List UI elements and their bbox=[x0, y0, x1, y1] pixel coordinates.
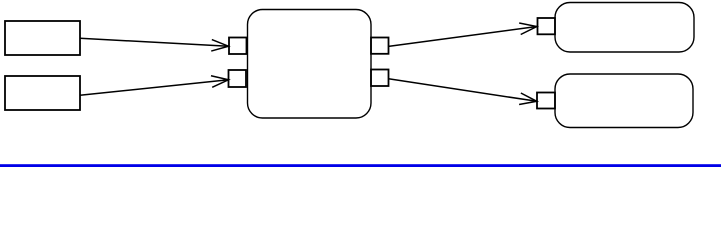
arrow wire: output port 1 to sink box 1 port bbox=[389, 27, 537, 47]
sink box 1 (top-right rounded rectangle) bbox=[555, 3, 694, 53]
arrow wire: source box 1 to input port 1 bbox=[80, 38, 229, 46]
arrowhead at input port 1 bbox=[211, 40, 228, 52]
arrowhead at sink box 1 port bbox=[519, 23, 537, 34]
central process block (rounded) bbox=[248, 10, 372, 119]
input port 2 (left edge of central block) bbox=[229, 70, 247, 87]
output port 2 (right edge of central block) bbox=[371, 70, 389, 87]
arrowhead at input port 2 bbox=[211, 76, 229, 88]
input port 1 (left edge of central block) bbox=[229, 38, 247, 55]
arrowhead at sink box 2 port bbox=[519, 93, 537, 104]
sink box 2 (bottom-right rounded rectangle) bbox=[555, 74, 693, 128]
sink box 2 port (left edge) bbox=[537, 93, 555, 109]
blue horizontal rule at bottom bbox=[0, 164, 721, 167]
arrow wire: output port 2 to sink box 2 port bbox=[389, 79, 537, 102]
source box 2 (bottom-left rectangle) bbox=[5, 76, 80, 110]
arrow wire: source box 2 to input port 2 bbox=[80, 80, 229, 95]
output port 1 (right edge of central block) bbox=[371, 38, 389, 54]
source box 1 (top-left rectangle) bbox=[5, 21, 80, 55]
sink box 1 port (left edge) bbox=[538, 18, 556, 34]
